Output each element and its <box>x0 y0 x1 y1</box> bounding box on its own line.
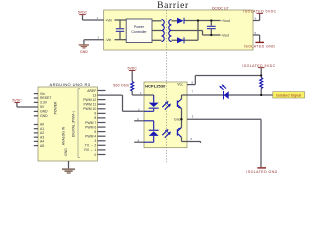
svg-text:RX ← 1: RX ← 1 <box>84 148 96 152</box>
wire D2 cathode up to +Vout rail <box>197 21 199 41</box>
opto emission arrows channel 2 <box>162 129 171 138</box>
svg-text:POWER: POWER <box>54 101 58 114</box>
transformer T1 secondary winding <box>169 20 172 42</box>
svg-text:-Vin: -Vin <box>105 38 111 42</box>
resistor R1 560 Ohm <box>113 82 133 92</box>
ground GND (arduino) <box>62 161 75 174</box>
arduino right pin labels <box>83 89 96 157</box>
svg-text:3: 3 <box>94 139 96 143</box>
wires controller to transformer primary <box>152 21 162 41</box>
optocoupler U2 HCPL2530 block <box>144 82 187 148</box>
svg-text:A5: A5 <box>40 144 44 148</box>
svg-text:PWM 7: PWM 7 <box>85 121 96 125</box>
svg-text:DC/DC U7: DC/DC U7 <box>212 6 229 10</box>
diode D2 (bottom rectifier) <box>177 37 185 43</box>
optocoupler pin 4 stub <box>134 138 144 142</box>
svg-text:5VDC: 5VDC <box>128 67 138 71</box>
svg-text:ISOLATED GND: ISOLATED GND <box>244 45 275 49</box>
wire 5VDC to arduino 5V pin <box>17 106 38 108</box>
svg-text:ARDUINO UNO R3: ARDUINO UNO R3 <box>50 82 91 87</box>
capacitor C2 (output filter) <box>207 21 216 36</box>
svg-text:ISOLATED GND: ISOLATED GND <box>246 170 277 174</box>
arduino left pin stubs <box>34 94 38 146</box>
power symbol 5VDC (arduino 5V) <box>12 99 22 108</box>
wire Vcc to isolated 5V <box>195 76 261 85</box>
resistor R2 pull-up <box>260 78 263 96</box>
pin 3 stub +Vout <box>253 16 260 20</box>
ground ISOLATED GND (logic side) <box>246 167 277 174</box>
svg-text:ANALOG IN: ANALOG IN <box>62 126 66 145</box>
svg-text:GND: GND <box>64 148 68 156</box>
arduino right pin stubs <box>98 91 106 155</box>
ground GND (input) <box>79 40 89 54</box>
svg-text:PWM 12: PWM 12 <box>83 98 96 102</box>
svg-text:GND: GND <box>40 114 48 118</box>
net label Isolated Signal <box>273 92 305 98</box>
optocoupler LED 2 <box>144 121 159 142</box>
phototransistor Q1 <box>177 95 182 119</box>
svg-text:Isolated Signal: Isolated Signal <box>276 94 301 98</box>
transformer T1 primary winding <box>162 20 165 42</box>
power controller box <box>126 19 152 43</box>
capacitor C1 (input filter) <box>116 20 124 40</box>
svg-text:9: 9 <box>94 112 96 116</box>
svg-text:560 Ohm: 560 Ohm <box>113 84 129 88</box>
svg-text:Vcc: Vcc <box>177 83 183 87</box>
svg-text:+Vout: +Vout <box>221 19 230 23</box>
svg-text:+Vin: +Vin <box>105 18 112 22</box>
svg-text:5VDC: 5VDC <box>12 99 22 103</box>
svg-text:Gnd: Gnd <box>174 117 181 121</box>
svg-text:PWM 10: PWM 10 <box>83 107 96 111</box>
power symbol ISOLATED 5VDC (logic side) <box>242 64 275 78</box>
junction dot pin5 <box>180 118 182 120</box>
Arduino Uno R3 block <box>38 82 98 161</box>
power symbol 5VDC (input) <box>78 11 88 20</box>
power symbol ISOLATED 5VDC (converter output) <box>243 10 276 21</box>
diode D1 (top rectifier) <box>177 18 185 24</box>
arduino left pin labels <box>40 92 51 148</box>
svg-text:13: 13 <box>93 93 97 97</box>
svg-text:Power: Power <box>134 25 145 29</box>
svg-text:GND: GND <box>40 110 48 114</box>
svg-text:5V: 5V <box>40 105 45 109</box>
junction dot <box>210 19 212 21</box>
+Vout rail wire <box>185 20 221 22</box>
wire Q1 collector to pin 7 <box>182 94 188 96</box>
wire GND to -Vin pin 2 <box>84 36 104 40</box>
DC/DC converter U7 block <box>104 6 253 50</box>
svg-text:AREF: AREF <box>87 89 96 93</box>
optocoupler pin 5 Gnd wire <box>187 114 261 167</box>
wire arduino D13 to optocoupler pin 2 <box>98 94 145 111</box>
svg-text:3.3V: 3.3V <box>40 101 48 105</box>
LED D3 indicator <box>219 84 228 99</box>
svg-text:0: 0 <box>94 153 96 157</box>
signal wire pin 7 to label <box>187 89 273 95</box>
digital bracket <box>78 89 80 158</box>
phototransistor Q2 <box>177 119 187 141</box>
svg-text:RESET: RESET <box>40 96 51 100</box>
junction dot signal <box>260 94 262 96</box>
svg-text:Vin: Vin <box>40 92 45 96</box>
center tap wire to -Vout rail <box>202 31 204 36</box>
wires secondary to diodes <box>172 21 203 41</box>
svg-text:DIGITAL (PWM~): DIGITAL (PWM~) <box>72 111 76 137</box>
pin 5 stub -Vout <box>253 31 260 35</box>
svg-text:-Vout: -Vout <box>221 33 229 37</box>
svg-text:GND: GND <box>80 50 88 54</box>
ground ISOLATED GND (converter output) <box>244 35 275 49</box>
svg-text:HCPL2530: HCPL2530 <box>145 83 165 88</box>
-Vout rail wire <box>203 34 221 36</box>
wire R1 to optocoupler pin 1 <box>132 91 144 95</box>
optocoupler pin 3 stub <box>134 117 144 121</box>
power symbol 5VDC (logic side) <box>128 67 138 82</box>
svg-text:Barrier: Barrier <box>157 1 189 11</box>
svg-text:PWM 6: PWM 6 <box>85 125 96 129</box>
svg-text:PWM 11: PWM 11 <box>84 103 97 107</box>
optocoupler LED 1 <box>144 95 159 111</box>
junction dot <box>210 34 212 36</box>
svg-text:TX → 2: TX → 2 <box>85 144 97 148</box>
svg-text:PWM 4: PWM 4 <box>85 135 96 139</box>
svg-text:5VDC: 5VDC <box>78 11 88 15</box>
internal input rails <box>115 20 127 40</box>
barrier isolation dashed line <box>166 10 168 163</box>
junction dot <box>197 19 199 21</box>
optocoupler pin 6 stub <box>187 137 201 143</box>
svg-text:8: 8 <box>94 116 96 120</box>
opto emission arrows channel 1 <box>162 101 171 110</box>
wire 5VDC to +Vin pin 1 <box>83 16 104 20</box>
junction dot vcc <box>260 74 262 76</box>
svg-text:Controller: Controller <box>131 30 147 34</box>
optocoupler pin 8 Vcc stub <box>187 81 195 85</box>
svg-text:5: 5 <box>94 130 96 134</box>
